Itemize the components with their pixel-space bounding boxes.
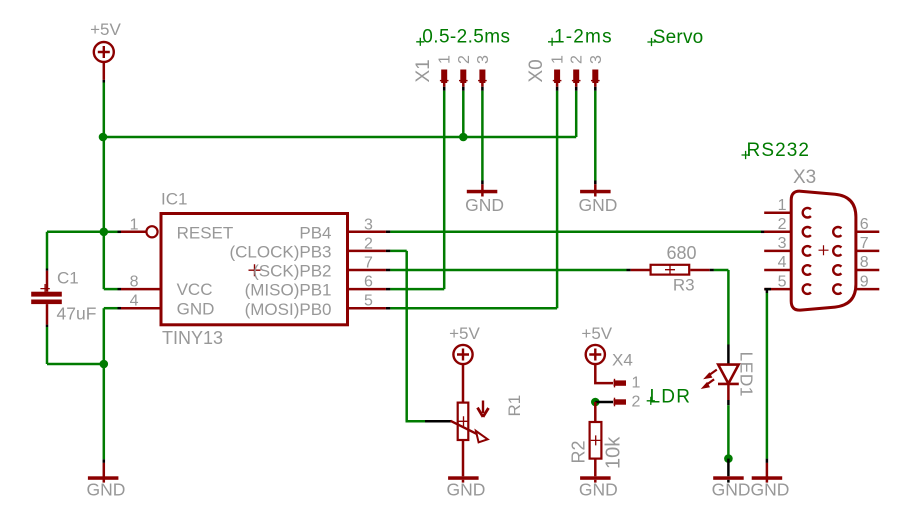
overlap tick pin1 bbox=[118, 231, 122, 234]
wire LED to ground junction bbox=[727, 405, 730, 458]
X3 pin 7 line bbox=[856, 250, 879, 253]
X3 pin 6 line bbox=[856, 231, 879, 234]
junction node RESET/C1 bbox=[100, 228, 109, 237]
wire PB3 horizontal stub bbox=[390, 250, 406, 253]
wire X0 pin1 down to PB0 row bbox=[556, 91, 559, 308]
X0 pin1 cross bbox=[553, 80, 562, 82]
svg-text:RESET: RESET bbox=[177, 223, 234, 242]
svg-text:RS232: RS232 bbox=[747, 140, 811, 161]
X1 pin1 overlap tick bbox=[443, 87, 446, 91]
X3 pin 2 line bbox=[764, 231, 791, 234]
pin 4 GND line bbox=[121, 307, 161, 310]
resistor R1 origin cross bbox=[459, 416, 469, 426]
+5V P1 pin stub bbox=[103, 62, 106, 80]
svg-text:GND: GND bbox=[579, 195, 618, 215]
svg-text:LDR: LDR bbox=[650, 387, 692, 408]
+5V symbol (X4) circle bbox=[586, 345, 605, 364]
LED1 cathode bar bbox=[718, 383, 739, 386]
wire PB0 to X0 pin1 elbow bbox=[390, 307, 557, 310]
svg-text:7: 7 bbox=[860, 235, 869, 252]
svg-text:7: 7 bbox=[364, 255, 373, 272]
X1 pin2 pad bbox=[460, 70, 466, 84]
X3 contact 7 bbox=[833, 246, 841, 256]
wire PB3 to R1 wiper bbox=[406, 420, 428, 423]
R2 bottom pin to ground bbox=[594, 459, 597, 477]
ground pin overlap (LED) bbox=[727, 459, 730, 477]
svg-text:X1: X1 bbox=[413, 59, 434, 82]
ground symbol pin (X3) bbox=[766, 463, 769, 483]
op-amp? no: IC U1 box bbox=[161, 214, 348, 325]
wire R1 bottom to ground (symbol layer) bbox=[462, 440, 465, 476]
R1 adjust arrowhead bbox=[478, 408, 489, 417]
junction X4 pin2 / R2 bbox=[591, 398, 600, 407]
ground symbol pin (left) bbox=[103, 463, 106, 483]
svg-text:IC1: IC1 bbox=[161, 190, 187, 209]
X3 pin 8 line bbox=[856, 269, 879, 272]
wire GND pin4 horizontal bbox=[104, 307, 118, 310]
ground symbol bar (left) bbox=[88, 476, 119, 480]
X3 pin 4 line bbox=[764, 269, 791, 272]
label Servo cross bbox=[647, 38, 655, 46]
overlap tick LED bottom bbox=[727, 400, 730, 405]
svg-text:9: 9 bbox=[860, 273, 869, 290]
X0 pin2 stub bbox=[575, 83, 578, 87]
capacitor C1 bottom pin bbox=[46, 304, 49, 325]
X0 pin2 pad bbox=[573, 70, 579, 84]
wire PB1 to X1 pin1 elbow bbox=[390, 288, 444, 291]
wire PB3 vertical down to wiper row bbox=[405, 251, 408, 421]
svg-text:TINY13: TINY13 bbox=[162, 328, 223, 348]
resistor R3 origin cross bbox=[665, 265, 675, 275]
+5V symbol (R1) plus bbox=[457, 349, 469, 361]
svg-text:+5V: +5V bbox=[449, 324, 480, 343]
X3 contact 6 bbox=[833, 227, 841, 237]
wire C1 top vertical bbox=[46, 232, 49, 269]
X3 pin 9 line bbox=[856, 288, 879, 291]
X3 pin 3 line bbox=[764, 250, 791, 253]
LED1 emission arrow 1 head bbox=[703, 372, 712, 379]
ground symbol bar (R1) bbox=[448, 476, 479, 480]
label LDR cross bbox=[647, 397, 655, 405]
svg-text:R3: R3 bbox=[673, 276, 695, 295]
X0 pin3 overlap tick bbox=[594, 87, 597, 91]
X1 pin3 stub bbox=[481, 83, 484, 87]
junction LED/GND bbox=[724, 454, 733, 463]
svg-text:+5V: +5V bbox=[90, 20, 121, 39]
svg-text:X4: X4 bbox=[612, 351, 633, 370]
svg-text:X3: X3 bbox=[793, 167, 816, 188]
X3 origin cross bbox=[819, 245, 829, 255]
resistor R2 origin cross bbox=[591, 435, 601, 445]
wire C1 bottom horizontal bbox=[47, 363, 104, 366]
pin 8 VCC line bbox=[121, 288, 161, 291]
svg-text:1: 1 bbox=[778, 197, 787, 214]
X0 pin1 stub bbox=[556, 83, 559, 87]
ground symbol bar (X3) bbox=[752, 476, 783, 480]
svg-text:+5V: +5V bbox=[581, 324, 612, 343]
junction X1 pin2 on rail bbox=[459, 133, 468, 142]
X0 pin2 overlap tick bbox=[575, 87, 578, 91]
X3 pin5 corner overlap bbox=[765, 289, 772, 293]
svg-text:R2: R2 bbox=[569, 440, 589, 463]
resistor R3 body bbox=[651, 265, 690, 275]
R3 left pin bbox=[631, 269, 650, 272]
svg-text:1: 1 bbox=[130, 216, 139, 233]
overlap tick X1 gnd bbox=[481, 181, 484, 185]
X0 pin3 pad bbox=[592, 70, 598, 84]
wire X1 pin1 down to PB1 row bbox=[443, 91, 446, 289]
resistor R2 body bbox=[590, 422, 602, 459]
X1 pin3 pad bbox=[479, 70, 485, 84]
svg-text:4: 4 bbox=[130, 293, 139, 310]
svg-text:VCC: VCC bbox=[177, 280, 213, 299]
LED1 emission arrow 2 head bbox=[701, 382, 710, 389]
svg-text:2: 2 bbox=[569, 55, 586, 64]
X0 pin1 pad bbox=[554, 70, 560, 84]
ground symbol bar (R2) bbox=[580, 476, 611, 480]
X0 pin2 cross bbox=[572, 80, 581, 82]
R1 wiper pin overlap bbox=[425, 420, 452, 423]
svg-text:8: 8 bbox=[130, 274, 139, 291]
svg-text:GND: GND bbox=[750, 480, 789, 500]
wire +5V to R1 top (symbol layer) bbox=[462, 364, 465, 401]
pin 1 RESET line bbox=[121, 231, 146, 234]
X0 pin3 cross bbox=[591, 80, 600, 82]
X3 contact 8 bbox=[833, 265, 841, 275]
overlap tick X3 pin2 bbox=[761, 231, 765, 234]
overlap tick pin8 bbox=[118, 288, 122, 291]
svg-text:6: 6 bbox=[860, 216, 869, 233]
X3 contact 2 bbox=[803, 227, 811, 237]
R1 wiper diagonal bbox=[451, 421, 482, 437]
wire X0 pin3 to ground bbox=[594, 91, 597, 181]
svg-text:3: 3 bbox=[778, 235, 787, 252]
svg-text:8: 8 bbox=[860, 254, 869, 271]
svg-text:4: 4 bbox=[778, 254, 787, 271]
svg-text:R1: R1 bbox=[505, 395, 524, 417]
ground symbol pin (X1) bbox=[481, 184, 484, 196]
IC1 origin cross bbox=[249, 264, 261, 276]
capacitor C1 top plate bbox=[31, 292, 62, 297]
X0 pin3 stub bbox=[594, 83, 597, 87]
wire +5V vertical rail to IC area bbox=[103, 137, 106, 289]
ground symbol stub (R1) bbox=[462, 480, 465, 483]
wire +5V horizontal rail to X0 pin2 bbox=[104, 136, 576, 139]
X4 pin2 wire overlap bbox=[595, 401, 613, 404]
LED1 emission arrow 1 shaft bbox=[708, 370, 717, 376]
wire X3 pin5 to ground bbox=[766, 293, 769, 459]
svg-text:GND: GND bbox=[447, 480, 486, 500]
svg-text:(SCK)PB2: (SCK)PB2 bbox=[253, 262, 331, 281]
overlap tick C1 bottom bbox=[46, 325, 49, 327]
overlap ticks right pins bbox=[386, 232, 391, 308]
X3 contact 3 bbox=[803, 246, 811, 256]
svg-text:680: 680 bbox=[667, 243, 697, 263]
R2 top pin bbox=[594, 402, 597, 422]
svg-text:10k: 10k bbox=[603, 436, 625, 469]
svg-text:(MISO)PB1: (MISO)PB1 bbox=[245, 281, 332, 300]
X4 pin1 pad bbox=[614, 380, 627, 385]
wire GND vertical to junction bbox=[103, 308, 106, 364]
LED1 bottom pin bbox=[727, 384, 730, 400]
svg-text:LED1: LED1 bbox=[737, 352, 757, 397]
svg-text:GND: GND bbox=[465, 195, 504, 215]
svg-text:5: 5 bbox=[778, 273, 787, 290]
ground symbol bar (X0) bbox=[580, 190, 611, 194]
wire +5V elbow into VCC pin 8 bbox=[104, 288, 118, 291]
pin 3 PB4 line bbox=[348, 231, 386, 234]
svg-text:47uF: 47uF bbox=[57, 304, 97, 324]
pin 7 PB2 line bbox=[348, 269, 386, 272]
ground symbol bar (X1) bbox=[467, 190, 498, 194]
X4 pin2 pad bbox=[614, 399, 627, 404]
X4 pin2 cross bbox=[614, 398, 616, 407]
wire PB4 to X3 pin2 bbox=[390, 231, 761, 234]
overlap tick X0 gnd bbox=[594, 181, 597, 185]
X1 pin2 stub bbox=[462, 83, 465, 87]
svg-text:GND: GND bbox=[579, 480, 618, 500]
capacitor C1 polarity cross bbox=[40, 284, 49, 293]
connector X3 shell bbox=[791, 191, 856, 310]
pin 6 PB1 line bbox=[348, 288, 386, 291]
X3 contact 5 bbox=[803, 284, 811, 294]
overlap tick pin4 bbox=[118, 307, 122, 310]
capacitor C1 bottom plate bbox=[31, 300, 62, 305]
+5V symbol P1 circle bbox=[94, 42, 114, 62]
svg-text:(MOSI)PB0: (MOSI)PB0 bbox=[245, 300, 332, 319]
wire RESET from junction bbox=[104, 231, 118, 234]
X3 pin 1 line bbox=[764, 211, 791, 214]
wire X1 pin3 to ground bbox=[481, 91, 484, 181]
ground symbol stub (R2) bbox=[594, 480, 597, 483]
label RS232 cross bbox=[742, 151, 750, 159]
svg-text:2: 2 bbox=[364, 235, 373, 252]
X4 pin1 cross bbox=[614, 379, 616, 388]
svg-text:1-2ms: 1-2ms bbox=[554, 26, 613, 47]
svg-text:Servo: Servo bbox=[653, 27, 704, 48]
pin/net overlap tick bbox=[103, 80, 106, 83]
ground symbol pin (X0) bbox=[594, 184, 597, 196]
wire GND down to ground symbol bbox=[103, 364, 106, 459]
label 0.5-2.5ms cross bbox=[416, 38, 424, 46]
overlap tick gnd left bbox=[103, 459, 106, 463]
overlap tick gnd right bbox=[766, 459, 769, 463]
junction rail at +5V column bbox=[99, 133, 108, 142]
wire C1 top horizontal bbox=[47, 231, 104, 234]
wire +5V vertical from supply to rail bbox=[103, 83, 106, 138]
X3 contact 1 bbox=[803, 208, 811, 218]
svg-text:GND: GND bbox=[712, 480, 751, 500]
+5V symbol P1 plus bbox=[98, 46, 110, 58]
X3 contact 4 bbox=[803, 265, 811, 275]
svg-text:1: 1 bbox=[632, 375, 641, 392]
ground symbol stub (LED) bbox=[727, 480, 730, 483]
svg-text:GND: GND bbox=[87, 480, 126, 500]
X1 pin2 cross bbox=[459, 80, 468, 82]
R1 adjust arrow shaft bbox=[482, 401, 484, 414]
wire C1 bottom vertical bbox=[46, 327, 49, 364]
LED1 top pin overlap bbox=[727, 345, 730, 365]
label 1-2ms cross bbox=[548, 38, 556, 46]
svg-text:X0: X0 bbox=[526, 59, 547, 82]
overlap tick C1 top bbox=[46, 269, 49, 271]
LED1 emission arrow 2 shaft bbox=[705, 379, 714, 385]
R1 wiper arrowhead (open) bbox=[476, 431, 488, 442]
LED1 triangle bbox=[718, 365, 738, 384]
svg-text:0.5-2.5ms: 0.5-2.5ms bbox=[422, 26, 510, 47]
pin 5 PB0 line bbox=[348, 307, 386, 310]
X0 pin1 overlap tick bbox=[556, 87, 559, 91]
wire X0 pin2 to +5V rail bbox=[575, 91, 578, 137]
svg-text:2: 2 bbox=[456, 55, 473, 64]
X1 pin1 pad bbox=[441, 70, 447, 84]
pin 1 inversion bubble bbox=[146, 226, 157, 237]
svg-text:5: 5 bbox=[364, 293, 373, 310]
svg-text:6: 6 bbox=[364, 274, 373, 291]
svg-text:GND: GND bbox=[177, 299, 215, 318]
X1 pin2 overlap tick bbox=[462, 87, 465, 91]
X1 pin3 cross bbox=[478, 80, 487, 82]
X1 pin1 cross bbox=[440, 80, 449, 82]
overlap tick R3 right bbox=[710, 269, 714, 272]
+5V symbol (R1) circle bbox=[453, 345, 472, 364]
R3 right pin bbox=[690, 269, 709, 272]
wire R3 to LED elbow bbox=[714, 269, 729, 272]
X1 pin1 stub bbox=[443, 83, 446, 87]
X3 pin 5 line bbox=[764, 288, 791, 291]
wire +5V to X4 pin1 (symbol layer) bbox=[595, 364, 613, 383]
wire down to LED bbox=[727, 270, 730, 345]
svg-text:C1: C1 bbox=[57, 269, 79, 288]
pin 2 PB3 line bbox=[348, 250, 386, 253]
svg-text:PB4: PB4 bbox=[299, 223, 331, 242]
svg-text:2: 2 bbox=[632, 394, 641, 411]
capacitor C1 top pin bbox=[46, 271, 49, 292]
wire X1 pin2 to +5V rail bbox=[462, 91, 465, 137]
svg-text:3: 3 bbox=[364, 216, 373, 233]
+5V symbol (X4) plus bbox=[589, 349, 601, 361]
svg-text:3: 3 bbox=[588, 55, 605, 64]
svg-text:1: 1 bbox=[437, 55, 454, 64]
svg-text:3: 3 bbox=[475, 55, 492, 64]
wire PB2 to R3 bbox=[390, 269, 626, 272]
svg-text:(CLOCK)PB3: (CLOCK)PB3 bbox=[229, 243, 331, 262]
X1 pin3 overlap tick bbox=[481, 87, 484, 91]
junction node GND/C1 bbox=[100, 360, 109, 369]
X3 contact 9 bbox=[833, 284, 841, 294]
svg-text:1: 1 bbox=[550, 55, 567, 64]
svg-text:2: 2 bbox=[778, 216, 787, 233]
ground symbol bar (LED) bbox=[713, 476, 744, 480]
resistor R1 body bbox=[458, 403, 469, 440]
overlap tick R3 left bbox=[627, 269, 631, 272]
